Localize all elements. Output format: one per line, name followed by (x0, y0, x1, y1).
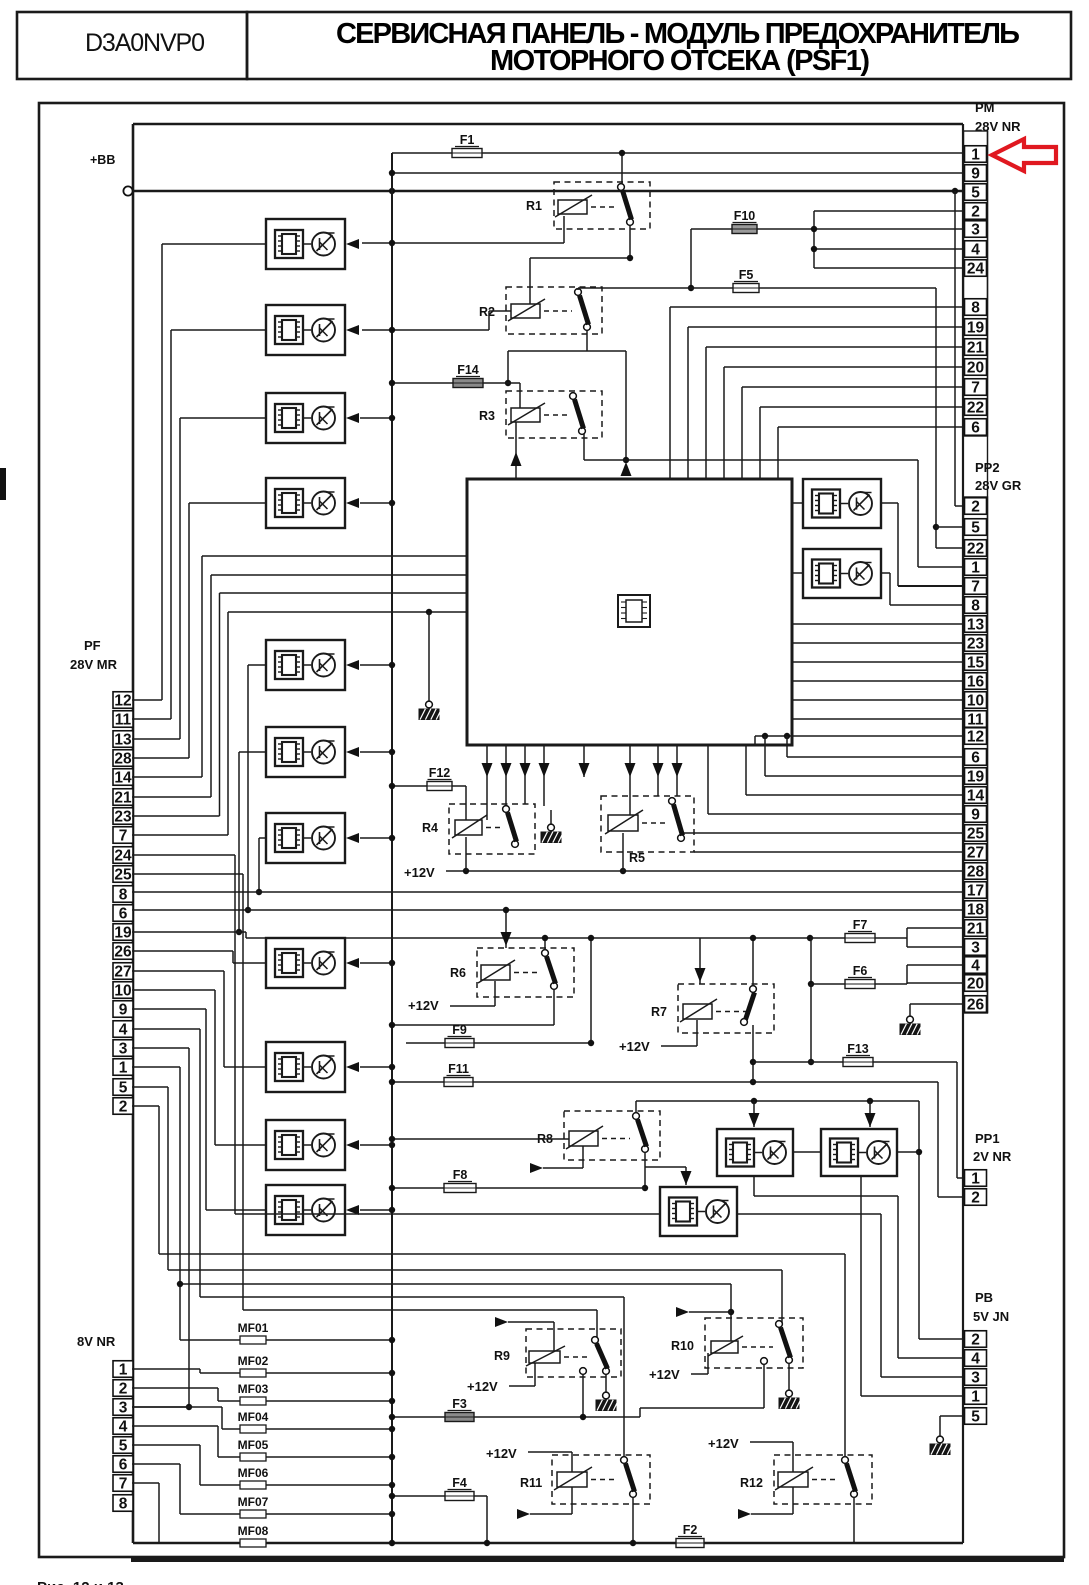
fuse F8 (389, 1168, 645, 1193)
PF pin 4 (113, 1021, 133, 1039)
svg-text:2: 2 (119, 1380, 128, 1397)
PP2 pin 15 (965, 654, 987, 672)
wire F12 to R4 coil top (465, 786, 467, 820)
PP2 pin 11 (965, 711, 987, 729)
R9 NC contact to F3 line (580, 1368, 587, 1417)
PP2 pin 16 (965, 673, 987, 691)
svg-text:3: 3 (971, 221, 980, 238)
PB pin 1 (965, 1388, 987, 1406)
PF pin 2 (113, 1098, 133, 1116)
svg-text:5: 5 (971, 519, 980, 536)
svg-text:23: 23 (967, 635, 985, 652)
8V pin 3 (113, 1399, 133, 1417)
fuse F10 (688, 209, 963, 291)
relay R1 (526, 182, 650, 229)
ground at R10 switch (779, 1363, 802, 1409)
svg-text:F6: F6 (853, 964, 868, 978)
svg-text:22: 22 (967, 540, 984, 557)
wire PF pin 19 control rail (132, 932, 813, 941)
+12V feed R7 coil (619, 1020, 697, 1054)
svg-text:5: 5 (119, 1437, 128, 1454)
PP2 pin 26 (965, 996, 987, 1014)
svg-text:21: 21 (114, 789, 132, 806)
svg-text:20: 20 (967, 975, 984, 992)
fuse F1 (392, 133, 963, 158)
svg-text:20: 20 (967, 359, 984, 376)
svg-text:21: 21 (967, 920, 985, 937)
svg-text:3: 3 (119, 1399, 128, 1416)
PP2 pin 22 (965, 540, 987, 558)
svg-text:25: 25 (114, 866, 132, 883)
svg-text:26: 26 (967, 996, 985, 1013)
driver box 2 (266, 305, 359, 355)
driver box 8 (266, 938, 359, 988)
+12V feed R10 coil (649, 1353, 708, 1382)
8V pin 5 (113, 1437, 133, 1455)
svg-text:R12: R12 (740, 1476, 763, 1490)
PM pin 22 (965, 399, 987, 417)
fuse MF04 (132, 1407, 395, 1433)
svg-text:F1: F1 (460, 133, 475, 147)
wire PF pin 4 to R11 switch (132, 1029, 624, 1459)
PF pin 26 (113, 943, 133, 961)
svg-text:18: 18 (967, 901, 985, 918)
svg-text:21: 21 (967, 339, 985, 356)
8V pin 4 (113, 1418, 133, 1436)
svg-text:+12V: +12V (708, 1436, 739, 1451)
svg-text:F14: F14 (457, 363, 479, 377)
wire box D bottom to PB pin 1 (861, 1176, 963, 1396)
wire +12V rail to R4 R5 coils and PP2 pin 28 (404, 833, 963, 880)
PP1 pin 2 (965, 1189, 987, 1207)
PB pin 4 (965, 1350, 987, 1368)
wires module bottom control outputs (arrows) (482, 745, 683, 820)
svg-text:2: 2 (971, 498, 980, 515)
arrow feed R9 switch (495, 1317, 554, 1351)
relay R11 (520, 1455, 650, 1504)
PF pin 5 (113, 1079, 133, 1097)
wire PM pin5 rail to PP2 pin 2 (955, 191, 963, 506)
svg-text:13: 13 (967, 616, 985, 633)
svg-text:5: 5 (971, 184, 980, 201)
svg-text:4: 4 (971, 957, 980, 974)
svg-text:МОТОРНОГО ОТСЕКА (PSF1): МОТОРНОГО ОТСЕКА (PSF1) (490, 45, 870, 77)
svg-text:5: 5 (971, 1408, 980, 1425)
8V pin 1 (113, 1361, 133, 1379)
caption below border (clipped) (37, 1579, 124, 1585)
relay R5 (601, 796, 694, 865)
PM pin 4 (965, 241, 987, 259)
svg-text:15: 15 (967, 654, 985, 671)
svg-text:+12V: +12V (619, 1039, 650, 1054)
PM pin 1 (965, 146, 987, 164)
PF pin 24 (113, 847, 133, 865)
fuse F3 (389, 1397, 764, 1422)
svg-text:MF01: MF01 (238, 1321, 269, 1335)
wire PB pin 5 to ground (930, 1416, 964, 1455)
svg-text:7: 7 (119, 1475, 128, 1492)
svg-text:5: 5 (119, 1079, 128, 1096)
PM pin 6 (965, 419, 987, 437)
svg-text:4: 4 (971, 1350, 980, 1367)
PM pin 3 (965, 221, 987, 239)
PF pin 27 (113, 963, 133, 981)
PF pin 11 (113, 711, 133, 729)
PSF1 internal controller box U1 (467, 479, 792, 745)
driver box 9 (266, 1042, 359, 1092)
svg-text:3: 3 (971, 1369, 980, 1386)
+12V feed R9 coil (467, 1363, 535, 1394)
fuse MF06 (132, 1445, 395, 1489)
svg-text:19: 19 (114, 924, 132, 941)
wire rail to R7 switch (750, 935, 756, 986)
svg-text:1: 1 (971, 1388, 980, 1405)
svg-text:+BB: +BB (90, 153, 115, 167)
wire PM pin 9 feed (389, 170, 963, 176)
8V pin 2 (113, 1380, 133, 1398)
fuse MF05 (132, 1426, 395, 1461)
svg-text:R11: R11 (520, 1476, 542, 1490)
PP2 pin 27 (965, 844, 987, 862)
wire box C bottom to PB pin 4 (754, 1176, 963, 1358)
PF pin 23 (113, 808, 133, 826)
svg-text:9: 9 (119, 1001, 128, 1018)
PF pin 28 (113, 750, 133, 768)
svg-text:27: 27 (967, 844, 984, 861)
svg-text:10: 10 (114, 982, 131, 999)
wire +BB rail to PM pin 5 (133, 188, 963, 194)
connector PP2 28V GR label (975, 460, 1022, 493)
svg-text:F5: F5 (739, 268, 754, 282)
wire box C to box D (793, 1151, 919, 1153)
svg-text:2: 2 (119, 1098, 128, 1115)
wire R8 switch bottom to F8 and box E (642, 1152, 686, 1191)
svg-text:MF02: MF02 (238, 1354, 269, 1368)
svg-text:7: 7 (971, 578, 980, 595)
driver box A (right of module) (803, 479, 881, 528)
svg-text:8: 8 (119, 886, 128, 903)
wire PF pin 2 to R12 switch (132, 1106, 845, 1459)
connector PB 5V JN label (973, 1290, 1009, 1324)
PP2 pin 18 (965, 901, 987, 919)
svg-text:28V MR: 28V MR (70, 657, 118, 672)
PM pin 2 (965, 203, 987, 221)
driver box B (right of module) (803, 549, 881, 598)
wire R2 switch top to F5 line (577, 288, 579, 290)
wire module bottom corner to PP2 pin 12 (755, 733, 963, 745)
svg-text:8: 8 (971, 299, 980, 316)
svg-text:F12: F12 (429, 766, 451, 780)
fuse MF02 (132, 1354, 395, 1377)
fuse F9 (406, 935, 594, 1048)
arrow feed R11 coil bottom (517, 1487, 572, 1519)
wires module to PP2 pins 13 23 15 16 10 11 (792, 624, 963, 719)
title block: code box D3A0NVP0 (17, 12, 247, 79)
fuse F4 (389, 1476, 490, 1546)
svg-text:F4: F4 (452, 1476, 467, 1490)
svg-text:6: 6 (119, 905, 128, 922)
inner PSF1 module boundary rectangle (133, 124, 988, 1543)
PP2 pin 21 (965, 920, 987, 938)
fuse F2 on bottom rail (676, 1523, 704, 1548)
fuse MF08 (132, 1483, 395, 1547)
svg-text:7: 7 (971, 379, 980, 396)
driver box D (821, 1129, 897, 1176)
PP2 pin 1 (965, 559, 987, 577)
fuse F14 (389, 363, 520, 388)
fuse MF07 (132, 1464, 395, 1518)
svg-text:R3: R3 (479, 409, 495, 423)
PF pin 9 (113, 1001, 133, 1019)
wire R1 switch top to F1 rail (619, 150, 625, 184)
svg-text:F7: F7 (853, 918, 868, 932)
svg-text:9: 9 (971, 165, 980, 182)
svg-text:12: 12 (114, 692, 131, 709)
PP2 pin 17 (965, 882, 987, 900)
svg-text:R5: R5 (629, 851, 645, 865)
PF pin 21 (113, 789, 133, 807)
PP2 pin 10 (965, 692, 987, 710)
svg-text:R1: R1 (526, 199, 542, 213)
PP2 pin 14 (965, 787, 987, 805)
svg-text:2: 2 (971, 1189, 980, 1206)
svg-text:19: 19 (967, 319, 985, 336)
PF pin 8 (113, 886, 133, 904)
wire rail to R6 switch (542, 935, 548, 950)
svg-text:Рис. 12 и 13: Рис. 12 и 13 (37, 1579, 124, 1585)
svg-text:28V GR: 28V GR (975, 478, 1022, 493)
annotation red arrow pointing at PM pin 1 (992, 139, 1056, 171)
wire R11 switch bottom to bottom rail (630, 1497, 636, 1546)
svg-text:PB: PB (975, 1290, 993, 1305)
svg-text:4: 4 (119, 1021, 128, 1038)
svg-text:11: 11 (967, 711, 984, 728)
wire central bus rail (391, 153, 393, 1543)
svg-text:R4: R4 (422, 821, 438, 835)
wire R12 switch bottom to bottom rail (853, 1497, 855, 1543)
svg-text:MF03: MF03 (238, 1382, 269, 1396)
PF pin 7 (113, 827, 133, 845)
ground below module left elbow (419, 612, 442, 720)
wire long rail to box E and PB pin 3 (132, 855, 963, 1377)
svg-text:16: 16 (967, 673, 985, 690)
wire PF pin 6 to PP2 pin 18 rail (132, 909, 963, 911)
wire R1 switch output node (530, 225, 633, 304)
wire PM pins 2/3/4/24 bracket (811, 211, 963, 268)
PM pin 20 (965, 359, 987, 377)
PF pin 10 (113, 982, 133, 1000)
wire PF pin 8 to PP2 pin 17 rail (132, 891, 963, 893)
wires module left edge to PF pins 14 21 23 7 (132, 556, 467, 835)
connector PM pin column outline (964, 131, 988, 436)
fuse F13 to PP1 pin 1 (753, 984, 963, 1178)
driver box 7 (266, 813, 359, 863)
PP2 pin 7 (965, 578, 987, 596)
svg-text:3: 3 (119, 1040, 128, 1057)
svg-text:14: 14 (114, 769, 132, 786)
svg-text:17: 17 (967, 882, 984, 899)
svg-text:F10: F10 (734, 209, 756, 223)
wire driver box2 to R2 coil (362, 311, 511, 333)
svg-text:F3: F3 (452, 1397, 467, 1411)
wires bus to driver boxes (360, 415, 395, 1213)
svg-text:+12V: +12V (467, 1379, 498, 1394)
svg-text:1: 1 (119, 1361, 128, 1378)
svg-text:PP1: PP1 (975, 1131, 1000, 1146)
arrows into boxes C D E (681, 1101, 876, 1185)
svg-text:27: 27 (114, 963, 131, 980)
fuse MF01 (180, 1321, 395, 1344)
svg-text:6: 6 (971, 749, 980, 766)
title block: diagram title (247, 12, 1071, 79)
svg-text:24: 24 (114, 847, 132, 864)
PF pin 25 (113, 866, 133, 884)
PP2 pin 6 (965, 749, 987, 767)
8V pin 6 (113, 1456, 133, 1474)
driver box 5 (266, 640, 359, 690)
fuse F6 to PP2 pins 4 20 (808, 938, 963, 989)
svg-text:1: 1 (971, 146, 980, 163)
svg-text:MF08: MF08 (238, 1524, 269, 1538)
svg-text:R7: R7 (651, 1005, 667, 1019)
svg-text:F9: F9 (452, 1023, 467, 1037)
svg-text:25: 25 (967, 825, 985, 842)
relay R12 (740, 1455, 872, 1504)
svg-text:8: 8 (119, 1495, 128, 1512)
svg-text:24: 24 (967, 260, 985, 277)
svg-text:+12V: +12V (649, 1367, 680, 1382)
svg-text:1: 1 (119, 1059, 128, 1076)
PP2 pin 2 (965, 498, 987, 516)
PM pin 24 (965, 260, 987, 278)
svg-text:9: 9 (971, 806, 980, 823)
relay R10 (671, 1318, 803, 1368)
wires module bottom stubs to PP2 pins 6 19 14 (746, 736, 963, 795)
svg-text:+12V: +12V (408, 998, 439, 1013)
PP2 pin 12 (965, 728, 987, 746)
PF pin 14 (113, 769, 133, 787)
svg-text:MF07: MF07 (238, 1495, 269, 1509)
fuse F12 (389, 766, 466, 791)
svg-text:28: 28 (967, 863, 985, 880)
PM pin 21 (965, 339, 987, 357)
PP1 pin 1 (965, 1170, 987, 1188)
driver box C (717, 1129, 793, 1176)
svg-text:1: 1 (971, 1170, 980, 1187)
wires PF pins 26 27 10 9 to driver boxes 8-11 (132, 951, 266, 1210)
wires PM pins 8,19,21,20,7,22,6 into module top (670, 307, 963, 479)
fuse MF03 (132, 1382, 395, 1405)
svg-text:19: 19 (967, 768, 985, 785)
wire R3 coil bottom to module with arrow (511, 422, 522, 479)
svg-text:+12V: +12V (404, 865, 435, 880)
arrow feed R10 switch (676, 1307, 731, 1317)
svg-text:6: 6 (971, 419, 980, 436)
svg-text:MF06: MF06 (238, 1466, 269, 1480)
svg-text:2V NR: 2V NR (973, 1149, 1012, 1164)
svg-text:3: 3 (971, 939, 980, 956)
svg-text:26: 26 (114, 943, 132, 960)
connector PF 28V MR label (70, 638, 118, 672)
svg-text:4: 4 (119, 1418, 128, 1435)
wire PF pin 1 to R10 coil (132, 1067, 734, 1341)
wire R8 switch top to PB pin 2 rail (636, 1098, 963, 1339)
svg-text:28: 28 (114, 750, 132, 767)
svg-text:8V NR: 8V NR (77, 1334, 116, 1349)
svg-text:PM: PM (975, 100, 995, 115)
relay R6 (450, 948, 574, 997)
relay R4 (422, 804, 535, 854)
svg-text:6: 6 (119, 1456, 128, 1473)
PB pin 3 (965, 1369, 987, 1387)
driver box 11 (266, 1185, 359, 1235)
driver box E (660, 1187, 737, 1236)
PP2 pin 13 (965, 616, 987, 634)
svg-text:13: 13 (114, 731, 132, 748)
svg-text:7: 7 (119, 827, 128, 844)
fuse F11 to PP1 pin 2 (389, 1062, 963, 1197)
node +BB supply (90, 153, 133, 196)
wire bus to R8 coil (389, 1136, 569, 1142)
arrow feed R12 coil bottom (738, 1487, 793, 1519)
svg-text:4: 4 (971, 241, 980, 258)
svg-text:23: 23 (114, 808, 132, 825)
PF pin 12 (113, 692, 133, 710)
driver box 3 (266, 393, 359, 443)
PP2 pin 25 (965, 825, 987, 843)
svg-text:2: 2 (971, 1331, 980, 1348)
ground at R9 switch (596, 1374, 619, 1411)
PF pin 3 (113, 1040, 133, 1058)
wire PF pin 25 to R9 switch (132, 874, 597, 1338)
relay R8 (537, 1111, 660, 1160)
8V pin 7 (113, 1475, 133, 1493)
svg-text:28V NR: 28V NR (975, 119, 1021, 134)
R10 NC contact (761, 1358, 768, 1408)
PM pin 19 (965, 319, 987, 337)
+12V feed R6 coil (408, 981, 495, 1013)
svg-text:22: 22 (967, 399, 984, 416)
wire R7 switch output to F13/F11 (750, 1025, 756, 1082)
relay R3 (479, 391, 602, 438)
PF pin 6 (113, 905, 133, 923)
PF pin 1 (113, 1059, 133, 1077)
PB pin 5 (965, 1408, 987, 1426)
svg-text:F2: F2 (683, 1523, 698, 1537)
svg-text:12: 12 (967, 728, 984, 745)
svg-text:2: 2 (971, 203, 980, 220)
PP2 pin 19 (965, 768, 987, 786)
ground at R4 (541, 810, 564, 843)
PP2 pin 28 (965, 863, 987, 881)
PM pin 9 (965, 165, 987, 183)
wire feed to R6 coil with arrow (501, 907, 512, 948)
arrow feed R8 coil bottom (530, 1146, 583, 1173)
8V pin 8 (113, 1495, 133, 1513)
PP2 pin 3 (965, 939, 987, 957)
svg-text:10: 10 (967, 692, 984, 709)
connector PP1 2V NR label (973, 1131, 1012, 1164)
connector PP2 pin column outline (964, 497, 988, 1013)
PP2 pin 20 (965, 975, 987, 993)
svg-text:R2: R2 (479, 305, 495, 319)
svg-text:14: 14 (967, 787, 985, 804)
PP2 pin 5 (965, 519, 987, 537)
PM pin 5 (965, 184, 987, 202)
svg-text:MF05: MF05 (238, 1438, 269, 1452)
svg-text:PP2: PP2 (975, 460, 1000, 475)
wire R3 switch bottom to PP2 pin 1 (584, 434, 963, 567)
